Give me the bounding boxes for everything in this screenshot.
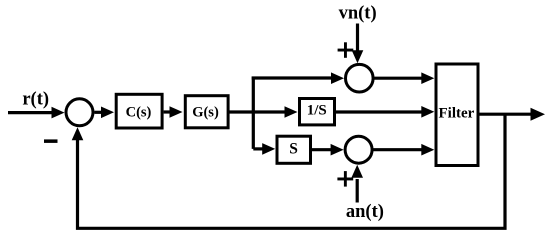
block C(s): [116, 94, 162, 128]
svg-text:Filter: Filter: [438, 106, 474, 122]
wire an(t) up: [356, 179, 359, 203]
svg-text:r(t): r(t): [22, 90, 49, 110]
arrowhead an into C: [351, 165, 363, 178]
svg-text:S: S: [289, 141, 298, 158]
wire branch to S: [253, 147, 264, 150]
wire r(t) input: [8, 111, 53, 114]
svg-text:1/S: 1/S: [307, 103, 327, 119]
minus sign: [44, 139, 58, 143]
arrowhead into summing node B: [331, 72, 344, 84]
wire Filter output: [479, 113, 532, 116]
arrowhead into Filter bottom: [421, 144, 434, 156]
block S: [277, 136, 311, 163]
block 1/S: [300, 99, 335, 125]
arrowhead feedback into A: [72, 127, 84, 140]
wire S to summing node C: [312, 148, 331, 151]
summing node B: [346, 64, 374, 92]
wire A to C(s): [95, 111, 104, 114]
wire C to Filter: [372, 148, 423, 151]
summing node C: [345, 136, 372, 163]
wire branch to summing node B: [252, 76, 332, 79]
arrowhead vn into B: [352, 50, 364, 63]
svg-text:G(s): G(s): [192, 104, 219, 120]
wire vn(t) down: [356, 24, 359, 52]
svg-text:C(s): C(s): [126, 104, 152, 120]
wire C(s) to G(s): [164, 110, 170, 113]
block G(s): [185, 96, 228, 128]
wire G(s) to 1/S with branch junction: [228, 110, 286, 113]
wire B to Filter: [373, 77, 423, 80]
wire 1/S to Filter: [336, 110, 423, 113]
plus sign bottom: [337, 178, 353, 181]
svg-text:vn(t): vn(t): [339, 4, 377, 24]
arrowhead output: [531, 108, 546, 121]
arrowhead into G(s): [170, 106, 183, 118]
block Filter: [436, 64, 478, 166]
wire feedback path: [78, 114, 506, 228]
arrowhead into 1/S: [285, 106, 298, 118]
arrowhead into Filter top: [421, 72, 434, 84]
arrowhead into Filter middle: [421, 106, 434, 118]
summing node A: [66, 99, 93, 126]
arrowhead into summing node A: [52, 107, 65, 119]
svg-text:an(t): an(t): [346, 202, 384, 222]
arrowhead into S: [262, 143, 275, 155]
wire branch vertical: [252, 77, 255, 149]
plus sign top: [338, 49, 354, 52]
arrowhead into summing node C: [331, 144, 344, 156]
arrowhead into C(s): [101, 107, 114, 119]
